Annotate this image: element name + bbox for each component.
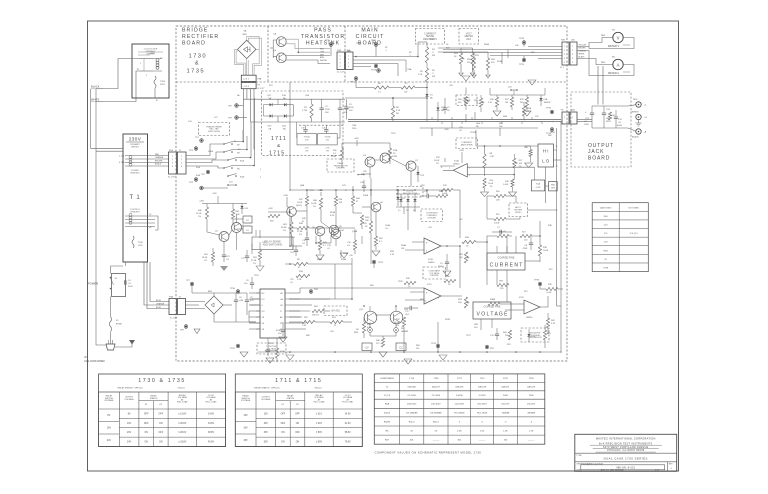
svg-text:BOARD: BOARD	[182, 40, 206, 46]
svg-text:45V: 45V	[244, 440, 249, 442]
svg-text:BLACK: BLACK	[632, 136, 639, 139]
capacitor C43 under IC1	[266, 349, 270, 351]
resistor R45	[508, 330, 511, 340]
svg-text:4.7K: 4.7K	[325, 148, 330, 150]
ground under R29	[523, 111, 531, 116]
svg-text:R1A: R1A	[536, 183, 541, 186]
collective primary box interior wires	[138, 51, 163, 53]
svg-text:Q10A: Q10A	[352, 230, 358, 233]
capacitor C22	[245, 255, 249, 257]
svg-text:41.5V: 41.5V	[345, 423, 351, 425]
svg-text:4.7K: 4.7K	[305, 148, 310, 150]
svg-text:5W: 5W	[432, 76, 435, 78]
wire drops under surge	[407, 218, 409, 230]
svg-text:TP10: TP10	[325, 40, 331, 42]
svg-text:TP25: TP25	[378, 262, 384, 264]
svg-text:R2: R2	[385, 47, 387, 49]
svg-text:P2A: P2A	[337, 49, 341, 52]
label box AUTO METER ZERO	[509, 203, 528, 217]
svg-text:ON: ON	[296, 423, 300, 425]
test point TP10	[329, 43, 333, 47]
svg-text:17.8K: 17.8K	[297, 231, 303, 233]
svg-text:1%: 1%	[299, 234, 302, 236]
svg-text:BLACK: BLACK	[579, 55, 586, 58]
svg-text:± 34V: ± 34V	[316, 423, 322, 425]
svg-text:C1-2200: C1-2200	[407, 395, 416, 397]
svg-text:100V: 100V	[584, 124, 589, 126]
svg-text:048-071: 048-071	[501, 387, 510, 389]
svg-text:TP26: TP26	[398, 281, 403, 283]
ground near TP9	[194, 329, 200, 334]
svg-text:ON: ON	[281, 442, 285, 444]
relay area extra wires	[217, 196, 219, 204]
diode D2 surge	[399, 199, 402, 202]
board outline: output jack board	[571, 92, 631, 167]
capacitor C14	[602, 112, 606, 114]
svg-text:TP18: TP18	[519, 38, 525, 40]
wire: IC2D connections	[516, 303, 524, 305]
svg-text:METER A: METER A	[608, 72, 619, 75]
board outline: bridge/heatsink divider	[267, 26, 269, 82]
resistor R39	[546, 287, 558, 290]
test point TP8	[235, 116, 239, 120]
svg-text:K2A: K2A	[240, 176, 244, 179]
wire: meter row verticals	[489, 88, 491, 95]
test point TP11	[354, 77, 358, 81]
diode D3 surge	[406, 199, 409, 202]
svg-text:20V: 20V	[127, 432, 132, 434]
resistor R34	[462, 240, 476, 243]
capacitor C8A current loop	[529, 242, 533, 244]
svg-text:R21A: R21A	[497, 60, 503, 63]
svg-text:1.7W: 1.7W	[302, 110, 307, 112]
svg-text:8V: 8V	[107, 415, 110, 417]
svg-text:28.4K: 28.4K	[202, 257, 208, 259]
test point TP5	[200, 186, 204, 190]
svg-text:R4,R5: R4,R5	[384, 421, 391, 423]
board outline: divider under top strip	[176, 81, 567, 83]
svg-text:NOT USED: NOT USED	[628, 207, 639, 209]
svg-text:OFF: OFF	[281, 423, 286, 425]
svg-text:15V: 15V	[244, 415, 249, 417]
diode D11	[396, 197, 399, 200]
svg-text:2200: 2200	[352, 128, 356, 130]
pot VR2 current coarse	[464, 252, 467, 263]
svg-text:7.3K: 7.3K	[490, 156, 495, 158]
dots pass3	[306, 189, 308, 191]
svg-text:ON=1.0: ON=1.0	[178, 388, 186, 390]
switch S1 contacts	[110, 277, 112, 279]
svg-text:9: 9	[426, 293, 427, 295]
capacitor C8 at IC1	[250, 282, 254, 284]
diode D4 surge	[413, 199, 416, 202]
svg-text:CV: CV	[365, 346, 369, 349]
svg-text:58.5V: 58.5V	[345, 432, 351, 434]
svg-text:10.0K: 10.0K	[543, 250, 549, 252]
svg-text:R68: R68	[306, 335, 310, 337]
svg-text:TP38: TP38	[603, 268, 609, 270]
wire: BR1 ribbon right/top	[247, 37, 260, 76]
svg-text:10K: 10K	[365, 220, 369, 222]
svg-text:1%: 1%	[436, 163, 439, 165]
bridge rectifier BR1	[238, 40, 256, 58]
svg-text:1%: 1%	[283, 230, 286, 232]
svg-text:WINDING: WINDING	[130, 172, 140, 174]
svg-text:JU1A: JU1A	[208, 150, 213, 153]
resistor R54	[334, 196, 337, 206]
resistor R2A small	[529, 150, 532, 157]
bottom area grounds	[439, 355, 447, 360]
svg-text:1N5402: 1N5402	[544, 102, 552, 104]
wire: diode matrix rails	[264, 104, 270, 106]
svg-text:TP19: TP19	[519, 64, 525, 66]
svg-text:PO: PO	[262, 299, 265, 301]
svg-text:ON=1.0: ON=1.0	[314, 388, 322, 390]
wire: output bus junctions	[437, 119, 439, 121]
svg-text:115V: 115V	[160, 84, 165, 86]
label box TRANSFORMER SEC TAP SWITCHING	[199, 123, 230, 136]
resistor R36	[444, 279, 456, 282]
capacitor C20	[324, 129, 328, 131]
svg-text:R4=.5: R4=.5	[433, 421, 440, 423]
resistor R40	[436, 194, 448, 197]
test point TP14	[550, 128, 554, 132]
resistor R56	[340, 148, 343, 160]
driver transistor Q4	[380, 153, 390, 163]
wire: output bus pair to jack board	[348, 119, 561, 121]
component value table	[374, 374, 545, 444]
COARSE/FINE CURRENT box	[487, 253, 525, 270]
ground under R53	[256, 266, 264, 271]
wire: current box to voltage box	[525, 260, 540, 262]
svg-text:± 50V: ± 50V	[316, 432, 322, 434]
svg-text:24V: 24V	[107, 440, 112, 442]
svg-text:600V: 600V	[617, 125, 622, 127]
svg-text:2200: 2200	[503, 395, 509, 397]
bus stub ticks	[431, 117, 433, 120]
svg-text:220,100V: 220,100V	[477, 404, 487, 406]
pot R17 103 1%	[513, 158, 516, 168]
wire: reference to voltage divider	[403, 327, 405, 352]
svg-text:T 1: T 1	[130, 195, 141, 201]
wire: mid vertical bus at 335	[334, 264, 336, 299]
svg-text:WHITE: WHITE	[579, 53, 586, 55]
svg-text:BLACK: BLACK	[91, 85, 100, 89]
svg-text:LINE CORD WIRED: LINE CORD WIRED	[84, 361, 105, 363]
svg-text:1/2W: 1/2W	[392, 156, 397, 158]
svg-text:MAXTEC INTERNATIONAL CORPORA: MAXTEC INTERNATIONAL CORPORATION	[596, 436, 656, 440]
svg-text:OFF: OFF	[159, 413, 164, 415]
resistor R25	[472, 58, 475, 70]
svg-text:TP23: TP23	[309, 190, 314, 192]
svg-text:COMPONENT: COMPONENT	[380, 378, 395, 380]
wire: C19/C20 block connections	[296, 122, 298, 138]
svg-text:100,100V: 100,100V	[407, 404, 417, 406]
ground right of pot	[525, 163, 533, 168]
test point TP31	[309, 290, 313, 294]
pot VR3 voltage coarse	[464, 297, 467, 308]
svg-text:SWITCHING: SWITCHING	[208, 131, 220, 133]
svg-text:D3-1N3088: D3-1N3088	[430, 413, 442, 415]
capacitor C13 inside jack board	[590, 112, 594, 114]
svg-text:2200: 2200	[529, 395, 535, 397]
label box CURRENT AMPLIFIER	[456, 138, 478, 149]
svg-text:ORANGE: ORANGE	[155, 156, 164, 159]
svg-text:R20A: R20A	[484, 43, 490, 46]
svg-text:1%: 1%	[253, 263, 256, 265]
transistor Q8 relay driver	[287, 207, 297, 217]
wire: emitter leads to connector P2A	[286, 60, 330, 64]
svg-text:100,100V: 100,100V	[431, 404, 441, 406]
wire: contact outputs with dots	[243, 141, 245, 143]
resistor R30 between LEDs	[381, 338, 384, 347]
wire: meter feed lines	[438, 47, 461, 49]
svg-text:1 OF: 1 OF	[655, 470, 660, 472]
label box CONSTANT CURRENT DRIVER	[421, 209, 443, 222]
capacitor C5	[245, 299, 249, 301]
current box top link	[496, 246, 498, 253]
svg-text:R51A: R51A	[330, 211, 336, 214]
relay sense bus drops	[305, 196, 308, 206]
ground under volt adj	[459, 73, 463, 76]
svg-text:1735: 1735	[529, 378, 535, 380]
wire: auto meter zero links	[515, 196, 517, 203]
svg-text:1 QG: 1 QG	[119, 156, 124, 158]
svg-text:R69: R69	[416, 345, 420, 347]
grounds sprinkle	[462, 76, 470, 81]
wire: right-side rail B	[560, 122, 562, 346]
bridge rectifier BR2	[205, 296, 223, 314]
boxed resistor R1A 4.7W	[531, 180, 544, 191]
svg-text:BROWN: BROWN	[579, 47, 587, 49]
svg-text:4.7K: 4.7K	[390, 254, 395, 256]
svg-text:H I: H I	[543, 149, 549, 154]
wire: BR2 to reference circuit	[223, 304, 232, 306]
test point TP21	[236, 344, 240, 348]
pot VR1 current fine pot	[497, 234, 509, 237]
svg-text:1.00K: 1.00K	[503, 184, 509, 186]
test point TP4	[194, 178, 198, 182]
svg-text:DWN:: DWN:	[576, 470, 582, 472]
dashed stub	[255, 230, 257, 236]
svg-text:IC6,7,10: IC6,7,10	[630, 233, 639, 235]
svg-text:RED: RED	[155, 154, 160, 156]
svg-text:1711: 1711	[457, 378, 462, 380]
table 1730 & 1735	[99, 374, 226, 447]
wire: left-center vertical feed	[289, 82, 291, 190]
test point TP12	[374, 43, 378, 47]
indicator transistor Q13	[390, 311, 403, 324]
diode D17	[270, 103, 273, 106]
svg-text:IC2C: IC2C	[427, 284, 432, 286]
dots center	[289, 211, 291, 213]
wire: voltage loop vertical	[486, 242, 488, 285]
svg-text:RED: RED	[354, 332, 359, 334]
wire: bus into jack board	[577, 119, 592, 121]
svg-text:4700A: 4700A	[304, 136, 310, 139]
resistor R55 auto meter zero	[494, 194, 506, 197]
wire: IC2A inverting input right	[467, 166, 534, 168]
board outline: 1711 divider	[299, 124, 343, 126]
transformer T100 primary coil	[156, 59, 159, 62]
svg-text:R7A: R7A	[393, 149, 398, 152]
negative reference diodes	[527, 334, 530, 337]
resistor R23	[471, 53, 474, 64]
wire: heatsink collector bus	[286, 39, 330, 52]
svg-text:WINDING: WINDING	[130, 211, 140, 213]
wire: BR1 bottom lead	[246, 59, 248, 76]
voltage box drops	[480, 319, 482, 330]
T1 thermal fuse T100 115C	[132, 236, 134, 248]
wire: top feed to current amp area	[475, 130, 477, 146]
diode D5 relay	[240, 206, 243, 209]
svg-text:150: 150	[416, 348, 419, 350]
svg-text:10.0K: 10.0K	[488, 183, 494, 185]
svg-text:J5A: J5A	[571, 109, 575, 112]
svg-text:CHICAGO, ILLINOIS 60635: CHICAGO, ILLINOIS 60635	[607, 449, 645, 452]
ground under R18A	[509, 192, 517, 197]
svg-text:P1A: P1A	[169, 149, 173, 152]
svg-text:WHITE: WHITE	[91, 98, 100, 102]
wire: primary return	[96, 71, 139, 102]
svg-text:HC1-8918: HC1-8918	[454, 413, 465, 415]
svg-text:1730: 1730	[433, 378, 439, 380]
svg-text:1.00K: 1.00K	[494, 223, 500, 225]
svg-text:24V: 24V	[127, 442, 132, 444]
svg-text:± 26.8V: ± 26.8V	[178, 423, 186, 425]
power switch S1 box	[112, 274, 126, 297]
current sense resistor R4	[425, 47, 428, 63]
indicator transistor Q11	[364, 311, 377, 324]
svg-text:R11A: R11A	[363, 194, 369, 197]
svg-text:STATUS: STATUS	[150, 397, 158, 400]
svg-text:1W: 1W	[505, 335, 508, 337]
svg-text:BOARD: BOARD	[358, 40, 382, 46]
svg-text:2.2K: 2.2K	[457, 430, 462, 432]
svg-text:1710: 1710	[409, 378, 415, 380]
svg-text:40.8V: 40.8V	[208, 442, 214, 444]
svg-text:1%: 1%	[204, 260, 207, 262]
svg-text:R49A: R49A	[317, 258, 323, 261]
svg-text:R56: R56	[333, 150, 336, 152]
wire: neg ref rail	[557, 305, 562, 307]
svg-text:2: 2	[572, 50, 573, 52]
capacitor C5A on output bus	[443, 107, 447, 109]
resistor R7	[401, 86, 415, 89]
transistor Q6	[371, 202, 381, 212]
wire: IC1 output to +5V adj	[289, 298, 330, 300]
wire: shunt row rail	[490, 94, 545, 96]
svg-text:R37B: R37B	[445, 319, 451, 321]
output jack J- black	[636, 129, 641, 134]
wire: IC2A output left	[443, 169, 453, 171]
wire: top rail to meter resistors	[438, 51, 488, 53]
wire: reference input rails	[214, 292, 247, 294]
meter shunt resistor row	[495, 97, 498, 107]
svg-text:OUTPUT: OUTPUT	[588, 143, 614, 149]
ground rail under reference	[279, 337, 287, 342]
capacitor C11	[305, 237, 309, 239]
svg-text:5W: 5W	[430, 39, 433, 41]
board outline: main dashed enclosure	[176, 26, 567, 361]
resistor R6	[374, 86, 389, 89]
svg-text:10.2K: 10.2K	[196, 213, 202, 215]
svg-text:56PC: 56PC	[606, 121, 612, 123]
svg-text:2-4700: 2-4700	[479, 395, 487, 397]
resistor R11	[369, 221, 372, 233]
wire: relay outputs to bus	[233, 130, 244, 142]
svg-text:048-076: 048-076	[455, 387, 464, 389]
test point TP9	[184, 325, 188, 329]
svg-text:YELLOW: YELLOW	[579, 44, 587, 46]
wire: heatsink base feed	[272, 40, 274, 58]
line cord plug LP1	[106, 344, 115, 350]
wire: DC rail bottom	[250, 121, 345, 123]
svg-text:STATUS: STATUS	[286, 397, 294, 400]
svg-text:IC2A: IC2A	[454, 160, 459, 163]
wire: rail to HI/LO	[438, 127, 538, 129]
svg-text:7W: 7W	[326, 150, 329, 152]
board outline: heatsink/main divider	[344, 26, 346, 82]
svg-text:R70: R70	[507, 344, 511, 346]
svg-text:RED: RED	[601, 62, 606, 64]
svg-text:2: 2	[469, 167, 470, 169]
svg-text:150,25V: 150,25V	[501, 404, 510, 406]
svg-text:ORANGE: ORANGE	[156, 302, 165, 305]
svg-text:V O L T A G E: V O L T A G E	[476, 312, 508, 318]
svg-text:TP30: TP30	[230, 288, 236, 290]
resistor R63 near +5V box	[312, 309, 324, 312]
svg-text:15V: 15V	[264, 413, 269, 415]
wire: voltmeter loop	[577, 38, 613, 47]
label box POSITIVE VOLTAGE REFERENCE	[257, 343, 286, 354]
svg-text:2: 2	[146, 75, 147, 77]
wire: DC rail top	[243, 98, 345, 100]
svg-text:8: 8	[438, 298, 439, 300]
COARSE/FINE VOLTAGE box	[473, 302, 511, 319]
wire: primary feed left	[96, 59, 139, 89]
svg-text:4L 1.47": 4L 1.47"	[337, 72, 345, 74]
wire: relay driver links	[207, 232, 220, 235]
svg-text:ON: ON	[159, 423, 163, 425]
svg-text:47D: 47D	[326, 140, 330, 142]
svg-text:.05: .05	[459, 130, 462, 132]
wire: connector J1 to relay contacts	[186, 144, 224, 156]
transistor Q2 relay driver	[232, 223, 242, 233]
op-amp IC2D negative reference amp	[524, 300, 540, 314]
test point TP1	[200, 139, 204, 143]
230V primary wiring / T1 transformer box	[123, 134, 148, 262]
svg-text:LM324: LM324	[453, 164, 460, 166]
svg-text:14.8V: 14.8V	[208, 413, 214, 415]
test point TP3	[194, 147, 198, 151]
svg-text:C1,C2: C1,C2	[384, 395, 391, 397]
svg-text:CIRCUIT: CIRCUIT	[356, 34, 385, 40]
svg-text:16V: 16V	[107, 428, 112, 430]
svg-text:LAST USED: LAST USED	[600, 206, 612, 209]
resistor R60 on output bus	[522, 106, 525, 116]
svg-text:16V: 16V	[127, 423, 132, 425]
svg-text:.1: .1	[409, 55, 411, 57]
svg-text:10K 1%: 10K 1%	[312, 315, 319, 317]
svg-text:MAIN: MAIN	[361, 28, 378, 34]
IC1 voltage regulator DIP	[260, 289, 285, 338]
IC1 left-side wires	[249, 292, 260, 294]
svg-text:R71: R71	[524, 291, 528, 293]
svg-text:8V: 8V	[128, 413, 131, 415]
svg-text:VO: VO	[262, 311, 265, 313]
svg-text:1: 1	[572, 46, 573, 48]
